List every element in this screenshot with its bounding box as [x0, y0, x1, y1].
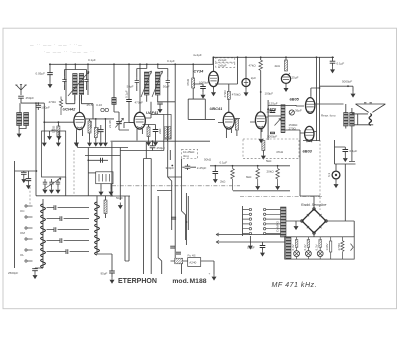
svg-text:450pF: 450pF: [26, 96, 35, 100]
coil winding secondary: [79, 74, 84, 95]
resistor 47k vertical above bus: [261, 141, 284, 160]
middle long verticals (switch shafts and couplers): [78, 63, 189, 274]
svg-text:50µF: 50µF: [116, 196, 123, 200]
svg-text:·— —— ·· ·—— — ··: ·— —— ·· ·—— — ··: [44, 50, 95, 54]
svg-text:6AT6: 6AT6: [267, 107, 277, 112]
wire: dial drive long rectangle: [144, 142, 152, 274]
svg-text:3-10: 3-10: [96, 103, 102, 107]
wire: top feeds: [65, 64, 87, 76]
svg-text:6kΩ: 6kΩ: [246, 175, 252, 179]
ghost bleed-through smudge top-left: [30, 43, 95, 54]
tube T3 UBC41: [218, 105, 240, 139]
wire: [111, 140, 153, 142]
resistor right of T3: [235, 119, 238, 130]
svg-text:6B05: 6B05: [290, 97, 300, 102]
wire: main B+ vertical: [175, 64, 181, 262]
wire: grid coupling x129: [128, 64, 130, 99]
svg-text:0.1µF: 0.1µF: [337, 62, 345, 66]
wire: osc coil into tube zone: [66, 64, 93, 119]
wires ratio det: [268, 100, 300, 140]
wire: OT leads: [346, 104, 355, 162]
svg-text:2kΩ: 2kΩ: [220, 180, 226, 184]
ratio detector coil: [275, 105, 286, 133]
cap under IFT1 sec: [157, 102, 163, 104]
wire: long bus y165.8: [210, 165, 290, 167]
svg-text:10kΩ: 10kΩ: [96, 126, 100, 134]
output transformer windings: [344, 113, 355, 127]
svg-text:Reaz. fono: Reaz. fono: [321, 114, 336, 118]
band switch coil column B: [95, 196, 100, 255]
antenna coil L1 (two windings): [17, 113, 29, 126]
wires right block: [335, 140, 356, 221]
bridge rectifier: [301, 208, 328, 235]
svg-text:+: +: [209, 272, 211, 276]
resistor hanging x257.7 with gnd: [246, 166, 260, 190]
wire: stepped switch line: [182, 159, 186, 240]
ground T1 pin: [74, 140, 79, 147]
svg-text:6,3: 6,3: [327, 172, 331, 177]
trimmer circle 36pF: [289, 109, 336, 118]
wires around bridge: [286, 197, 354, 237]
svg-text:2x8µF: 2x8µF: [218, 63, 227, 67]
power supply box: [285, 237, 355, 259]
resistor hanging x277.6 with gnd: [267, 166, 281, 190]
tube T7 6B03: [300, 126, 320, 142]
svg-text:0.1µF: 0.1µF: [247, 246, 255, 250]
ground: [42, 140, 47, 147]
wire: y190.8 bus: [233, 190, 290, 192]
svg-text:0,1µF: 0,1µF: [124, 90, 128, 98]
svg-text:170Ω: 170Ω: [52, 125, 56, 133]
wire: grid jog to T6: [311, 88, 320, 97]
T2 cathode bypass cap: [153, 130, 159, 132]
antenna: [15, 85, 27, 96]
feed bus above: [86, 118, 114, 120]
bypass resistor + caps right of T1: [86, 103, 114, 147]
tube T2 UF41 IF amp: [129, 112, 151, 140]
coupling caps on verticals: [170, 217, 181, 254]
ground at bridge left: [295, 221, 297, 224]
svg-text:1000pF: 1000pF: [199, 81, 209, 85]
wire: x140 to T2: [139, 64, 141, 112]
wire: stepped jog lower: [158, 196, 162, 274]
capacitor 0.05uF on rail A with ground: [36, 63, 53, 88]
wire: T7 cathode down: [299, 133, 301, 196]
T5 rectifier CY34: [209, 56, 219, 96]
wire: pot top link: [120, 139, 164, 151]
svg-text:100pF: 100pF: [41, 105, 50, 109]
svg-text:2x4µF: 2x4µF: [218, 58, 227, 62]
svg-text:47kΩ: 47kΩ: [223, 90, 227, 98]
svg-text:0.05µF: 0.05µF: [36, 72, 46, 76]
electrolytic C 2uF (circle): [242, 56, 256, 96]
trimmer caps between columns: [20, 205, 89, 257]
resistor hanging x232.5: [220, 166, 234, 191]
resistor 470k above T3: [215, 56, 241, 104]
wire: coil bottoms: [65, 85, 87, 101]
svg-text:5kΩ: 5kΩ: [266, 159, 272, 163]
svg-text:6,3V: 6,3V: [291, 244, 295, 250]
tube T4 UAF42: [250, 112, 268, 132]
svg-text:470pF: 470pF: [134, 100, 143, 104]
switch contact grid right: [243, 206, 281, 236]
svg-text:100µF: 100µF: [265, 92, 274, 96]
svg-text:6,3V: 6,3V: [315, 244, 319, 250]
coil winding primary: [73, 74, 78, 95]
ground x129: [119, 123, 129, 131]
resistor 2k on rail B x286: [275, 56, 288, 71]
svg-text:470Ω: 470Ω: [49, 100, 57, 104]
svg-text:250µF: 250µF: [157, 146, 166, 150]
svg-text:300pF: 300pF: [165, 166, 174, 170]
capacitor 2500pF bottom: [32, 269, 38, 271]
caps 300pF row: [165, 164, 206, 170]
cap to ground at bus left: [214, 166, 216, 172]
svg-text:OM: OM: [20, 231, 25, 235]
oscillator coil assembly (IFT-style) x75: [62, 63, 89, 100]
svg-text:47kΩ: 47kΩ: [276, 150, 284, 154]
wire: grid feed vertical: [43, 103, 45, 140]
IF transformer 1: [127, 63, 170, 150]
svg-text:2500pF: 2500pF: [8, 271, 18, 275]
svg-text:1000pF: 1000pF: [267, 135, 277, 139]
mech chain line: [112, 185, 240, 187]
cap + ground under column B: [97, 254, 115, 284]
resistor 2k zigzag: [59, 97, 62, 116]
trimmer left: [62, 76, 66, 84]
svg-text:A240: A240: [189, 261, 196, 265]
tuning capacitor frame box left: [42, 131, 66, 196]
svg-text:CY34: CY34: [194, 69, 205, 74]
tuning arrow: [68, 72, 89, 97]
svg-text:0.1µF: 0.1µF: [167, 59, 175, 63]
svg-text:M188: M188: [190, 278, 207, 285]
svg-text:0.1µF: 0.1µF: [350, 149, 358, 153]
wire: left AVC line: [14, 161, 16, 268]
svg-text:6,3V: 6,3V: [303, 244, 307, 250]
ground under column A: [35, 267, 43, 270]
band switch coil column A: [41, 199, 46, 268]
trimmer circles: [101, 108, 104, 111]
svg-text:mod.: mod.: [172, 278, 188, 285]
wire: coil to ground: [19, 126, 26, 132]
trimmer right: [84, 76, 88, 84]
wire: T1 grid line: [44, 121, 74, 123]
svg-text:25µF: 25µF: [292, 76, 299, 80]
wire: T2 cath to pot: [151, 102, 167, 141]
svg-text:OL: OL: [20, 253, 24, 257]
wire: short horizontals: [78, 144, 182, 274]
padder trimmer x114: [112, 63, 116, 112]
volume pot rect under T2: [158, 115, 171, 140]
capacitor antenna series 450pF: [18, 96, 24, 98]
svg-text:130V: 130V: [325, 243, 329, 250]
T5 cathode route: [188, 64, 215, 119]
cathode resistor T1: [57, 126, 60, 137]
tube T6 6B05 output: [296, 98, 344, 114]
ground under antenna coil: [17, 131, 22, 138]
dashed box 10-25k: [182, 149, 198, 158]
node dot: [37, 102, 39, 104]
heater resistors and lamps in box: [291, 237, 353, 259]
wire: right pair down: [186, 193, 188, 245]
svg-text:2kΩ: 2kΩ: [158, 128, 162, 134]
svg-text:— ·· —— · —— · ··—: — ·· —— · —— · ··—: [30, 43, 83, 47]
wire: bus under trimmers: [36, 195, 113, 197]
svg-text:47kΩ: 47kΩ: [249, 64, 257, 68]
svg-text:3mg: 3mg: [183, 154, 189, 158]
svg-text:20kΩ: 20kΩ: [267, 170, 275, 174]
dashed enclosure tone section: [243, 139, 299, 158]
cap + gnd left of box: [245, 242, 285, 257]
speaker: [352, 103, 386, 126]
svg-text:50pF: 50pF: [163, 85, 170, 89]
wire: AGC bus: [152, 140, 210, 142]
resistor near T5: [192, 78, 195, 88]
svg-text:UCH42: UCH42: [63, 107, 77, 112]
trimmers cluster below box: [43, 178, 62, 194]
cap to ground 1: [21, 171, 27, 183]
wire: T1 anode up x88: [87, 64, 89, 95]
capacitor 100pF at x38: [36, 105, 42, 107]
gnd under T4: [260, 128, 262, 137]
wire: HT rail B (right top bus): [214, 56, 334, 58]
svg-text:47kΩ: 47kΩ: [186, 78, 190, 86]
cap 0.1uF at x332.5: [330, 56, 345, 73]
svg-text:MF 471 kHz.: MF 471 kHz.: [272, 281, 318, 289]
dashed band switch link: [29, 187, 31, 206]
switch contacts left of column A: [25, 205, 33, 262]
cap at 203: [200, 87, 206, 89]
wire: HT rail A (left top bus): [49, 63, 213, 65]
cap small: [270, 111, 276, 113]
mid-left switch block: [87, 148, 113, 219]
svg-text:125µF: 125µF: [269, 101, 278, 105]
resistor 47k zigzag from rail B: [249, 56, 274, 112]
cap 250uF on bus: [150, 140, 166, 150]
svg-text:2µF: 2µF: [251, 76, 256, 80]
dashed gang link: [73, 150, 75, 196]
svg-text:470kΩ: 470kΩ: [232, 93, 242, 97]
svg-text:2-25pF: 2-25pF: [197, 166, 207, 170]
cap A 0.1uF right: [343, 147, 358, 162]
svg-text:6B03: 6B03: [303, 149, 313, 154]
wire: rail A to rail B riser: [213, 57, 214, 64]
svg-text:ETERPHON: ETERPHON: [118, 278, 157, 285]
ground x120: [118, 203, 123, 210]
bottom center resistor + box: [171, 253, 217, 280]
svg-text:5000pF: 5000pF: [342, 80, 352, 84]
svg-text:UBC41: UBC41: [210, 106, 223, 111]
dashed spec box: [216, 58, 235, 67]
junction dots on bus: [214, 165, 216, 167]
wire: antenna lead: [20, 98, 44, 112]
svg-text:25-5: 25-5: [87, 103, 93, 107]
mech chain line right: [240, 196, 322, 198]
variable cap with arrow (tuning gang): [108, 112, 123, 130]
svg-text:36pF: 36pF: [295, 109, 302, 113]
gnd under switch bus: [249, 236, 251, 243]
electrolytic 25uF circle: [281, 73, 298, 92]
svg-text:50kΩ: 50kΩ: [204, 158, 212, 162]
cap to ground 2: [26, 171, 32, 189]
wire: switch vertical with step: [168, 150, 172, 230]
pilot lamp: [327, 167, 340, 188]
wire: heater pair verticals: [317, 57, 320, 141]
wire: short verticals left: [112, 142, 120, 200]
svg-text:21-98: 21-98: [108, 120, 112, 128]
wire: x36 band bus: [35, 103, 37, 196]
T2 cathode resistor: [147, 127, 150, 137]
svg-text:50pF: 50pF: [127, 85, 134, 89]
tube T1 UCH42 converter: [74, 95, 85, 140]
phono input arrows: [216, 233, 281, 244]
wire: lower stubs: [125, 196, 129, 261]
svg-text:2kΩ: 2kΩ: [275, 64, 281, 68]
HT smoothing winding (tall): [281, 207, 287, 237]
grid resistor to ground: [57, 122, 59, 140]
junction dots: [171, 165, 173, 167]
svg-text:25kΩ: 25kΩ: [89, 120, 93, 128]
svg-text:4+4µF: 4+4µF: [193, 53, 202, 57]
svg-text:95pF: 95pF: [101, 272, 108, 276]
label 5000pF node: [320, 80, 356, 98]
svg-text:270Ω: 270Ω: [337, 242, 341, 250]
svg-text:0.1µF: 0.1µF: [220, 161, 228, 165]
svg-text:0.1µF: 0.1µF: [88, 58, 96, 62]
svg-text:CAMPO: CAMPO: [276, 220, 280, 232]
wire: left feed y171: [15, 170, 37, 172]
svg-text:Fu 4S: Fu 4S: [188, 253, 196, 257]
gang frame grounds inside box: [50, 131, 60, 134]
ground arrows under x50 x60: [74, 140, 79, 147]
